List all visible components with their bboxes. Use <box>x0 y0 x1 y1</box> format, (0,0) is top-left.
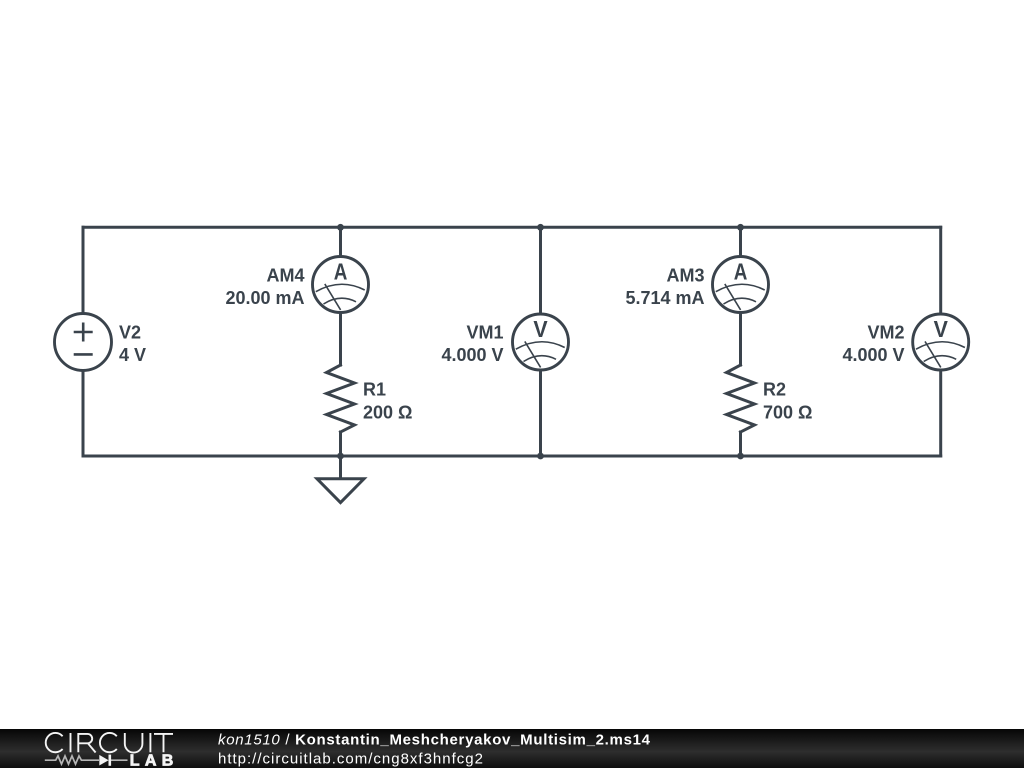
logo CIRCUIT lettering <box>46 733 173 753</box>
svg-text:LAB: LAB <box>130 752 174 768</box>
node bottom VM1 <box>537 453 544 460</box>
ground <box>317 456 364 503</box>
svg-text:A: A <box>334 260 348 285</box>
svg-text:20.00 mA: 20.00 mA <box>225 288 304 308</box>
svg-text:200 Ω: 200 Ω <box>363 402 412 422</box>
wire VM1 branch <box>539 227 542 456</box>
voltage source V2 <box>55 314 112 371</box>
svg-text:700 Ω: 700 Ω <box>763 402 812 422</box>
svg-text:V: V <box>533 316 547 342</box>
wire AM4-R1 branch <box>339 227 342 456</box>
svg-text:R2: R2 <box>763 380 786 400</box>
voltmeter VM1 <box>513 314 569 370</box>
ammeter AM4 <box>313 257 369 313</box>
node top VM1 <box>537 224 544 231</box>
footer bar <box>0 729 1024 768</box>
logo resistor-diode icon <box>45 756 128 764</box>
svg-text:R1: R1 <box>363 380 386 400</box>
node top AM3 <box>737 224 744 231</box>
svg-text:4.000 V: 4.000 V <box>441 345 503 365</box>
svg-text:http://circuitlab.com/cng8xf3h: http://circuitlab.com/cng8xf3hnfcg2 <box>218 751 484 768</box>
svg-text:4.000 V: 4.000 V <box>842 345 904 365</box>
svg-text:A: A <box>734 260 748 285</box>
wire bottom rail <box>83 455 941 458</box>
svg-text:V2: V2 <box>119 323 141 343</box>
wire top rail <box>83 226 941 229</box>
svg-text:VM2: VM2 <box>867 323 904 343</box>
svg-text:VM1: VM1 <box>466 323 503 343</box>
svg-text:kon1510 / Konstantin_Meshchery: kon1510 / Konstantin_Meshcheryakov_Multi… <box>218 732 651 749</box>
node bottom R2 <box>737 453 744 460</box>
logo diode <box>99 755 108 766</box>
node top AM4 <box>337 224 344 231</box>
resistor R1 <box>327 365 355 432</box>
svg-text:V: V <box>934 316 948 342</box>
svg-text:AM4: AM4 <box>266 265 304 285</box>
wire left branch (V2) <box>82 227 85 456</box>
svg-text:4 V: 4 V <box>119 345 146 365</box>
ammeter AM3 <box>713 257 769 313</box>
voltmeter VM2 <box>913 314 969 370</box>
wire right branch (VM2) <box>939 227 942 456</box>
svg-text:AM3: AM3 <box>666 265 704 285</box>
resistor R2 <box>727 365 755 432</box>
wire AM3-R2 branch <box>739 227 742 456</box>
node bottom ground <box>337 453 344 460</box>
svg-text:5.714 mA: 5.714 mA <box>625 288 704 308</box>
